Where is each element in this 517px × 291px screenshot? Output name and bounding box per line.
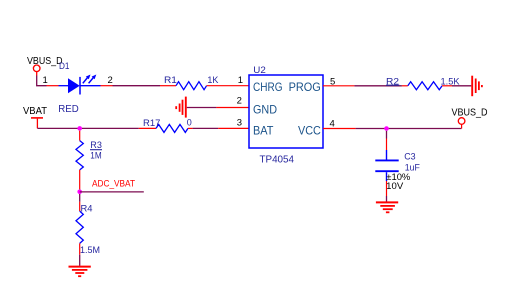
wire junction to R3	[79, 131, 81, 141]
wire junction to R4	[79, 194, 81, 211]
svg-text:R4: R4	[81, 204, 93, 214]
svg-text:D1: D1	[59, 61, 70, 71]
wire ADC_VBAT stub	[80, 191, 144, 193]
LED D1	[47, 75, 113, 95]
wire R2 to right ground	[452, 85, 471, 87]
svg-text:R1: R1	[164, 75, 177, 85]
capacitor C3	[375, 150, 398, 181]
svg-text:VBUS_D: VBUS_D	[452, 108, 488, 119]
junction (VBAT / R3)	[77, 126, 82, 131]
svg-text:R17: R17	[143, 118, 160, 128]
svg-text:2: 2	[237, 95, 242, 106]
designator R3 (underlined)	[90, 140, 102, 150]
svg-text:BAT: BAT	[253, 124, 273, 138]
ground (at U2 pin 2, pointing left)	[176, 97, 186, 118]
svg-text:1uF: 1uF	[405, 163, 421, 173]
wire VBAT to R17	[37, 127, 138, 129]
ground (under C3)	[376, 202, 398, 212]
svg-text:10V: 10V	[386, 181, 403, 191]
port VBAT	[23, 106, 47, 129]
svg-text:VCC: VCC	[298, 124, 321, 138]
svg-text:TP4054: TP4054	[260, 153, 295, 165]
resistor R4	[76, 211, 83, 255]
svg-text:ADC_VBAT: ADC_VBAT	[92, 178, 135, 189]
ground (right of R2, pointing right)	[472, 76, 482, 97]
svg-text:1M: 1M	[90, 150, 101, 160]
ground (bottom left)	[69, 267, 91, 277]
svg-text:CHRG: CHRG	[253, 80, 283, 94]
wire C3 to ground	[386, 181, 388, 196]
resistor R1	[160, 82, 249, 90]
resistor R2	[402, 82, 452, 90]
svg-text:U2: U2	[253, 65, 265, 75]
IC U2 (TP4054)	[249, 75, 323, 148]
svg-text:VBAT: VBAT	[23, 106, 47, 117]
svg-text:1: 1	[43, 75, 48, 86]
svg-text:VBUS_D: VBUS_D	[27, 56, 63, 67]
resistor R17	[139, 124, 193, 132]
terminal VBUS_D (left)	[33, 65, 40, 72]
svg-text:3: 3	[237, 117, 242, 128]
svg-text:PROG: PROG	[289, 80, 321, 94]
svg-text:1.5K: 1.5K	[441, 76, 460, 86]
terminal VBUS_D (right)	[458, 118, 465, 125]
svg-text:1: 1	[238, 75, 243, 86]
wire junction to C3	[386, 131, 388, 139]
svg-text:R3: R3	[90, 140, 102, 150]
wire U2 pin 5 to R2	[323, 85, 402, 87]
svg-text:RED: RED	[58, 104, 78, 115]
wire U2 pin 4 to VBUS_D terminal	[323, 124, 462, 128]
designator R2	[386, 76, 399, 86]
svg-text:GND: GND	[253, 103, 277, 117]
svg-text:0: 0	[187, 117, 192, 127]
svg-text:1K: 1K	[207, 75, 218, 85]
svg-text:C3: C3	[404, 151, 415, 161]
wire R4 to ground	[79, 255, 81, 266]
resistor R3	[76, 141, 83, 190]
svg-text:4: 4	[330, 118, 335, 129]
wire R17 to U2 pin 3	[193, 127, 249, 129]
wire R3 to R4	[79, 189, 81, 192]
svg-text:1.5M: 1.5M	[80, 245, 100, 255]
junction (pin4 / C3)	[384, 126, 389, 131]
wire D1 pin2 to R1	[113, 85, 161, 87]
svg-text:2: 2	[108, 75, 113, 86]
junction (ADC_VBAT)	[77, 190, 82, 195]
wire VBUS_D terminal to D1 pin 1	[36, 72, 38, 76]
wire ground to U2 pin 2	[187, 107, 249, 109]
